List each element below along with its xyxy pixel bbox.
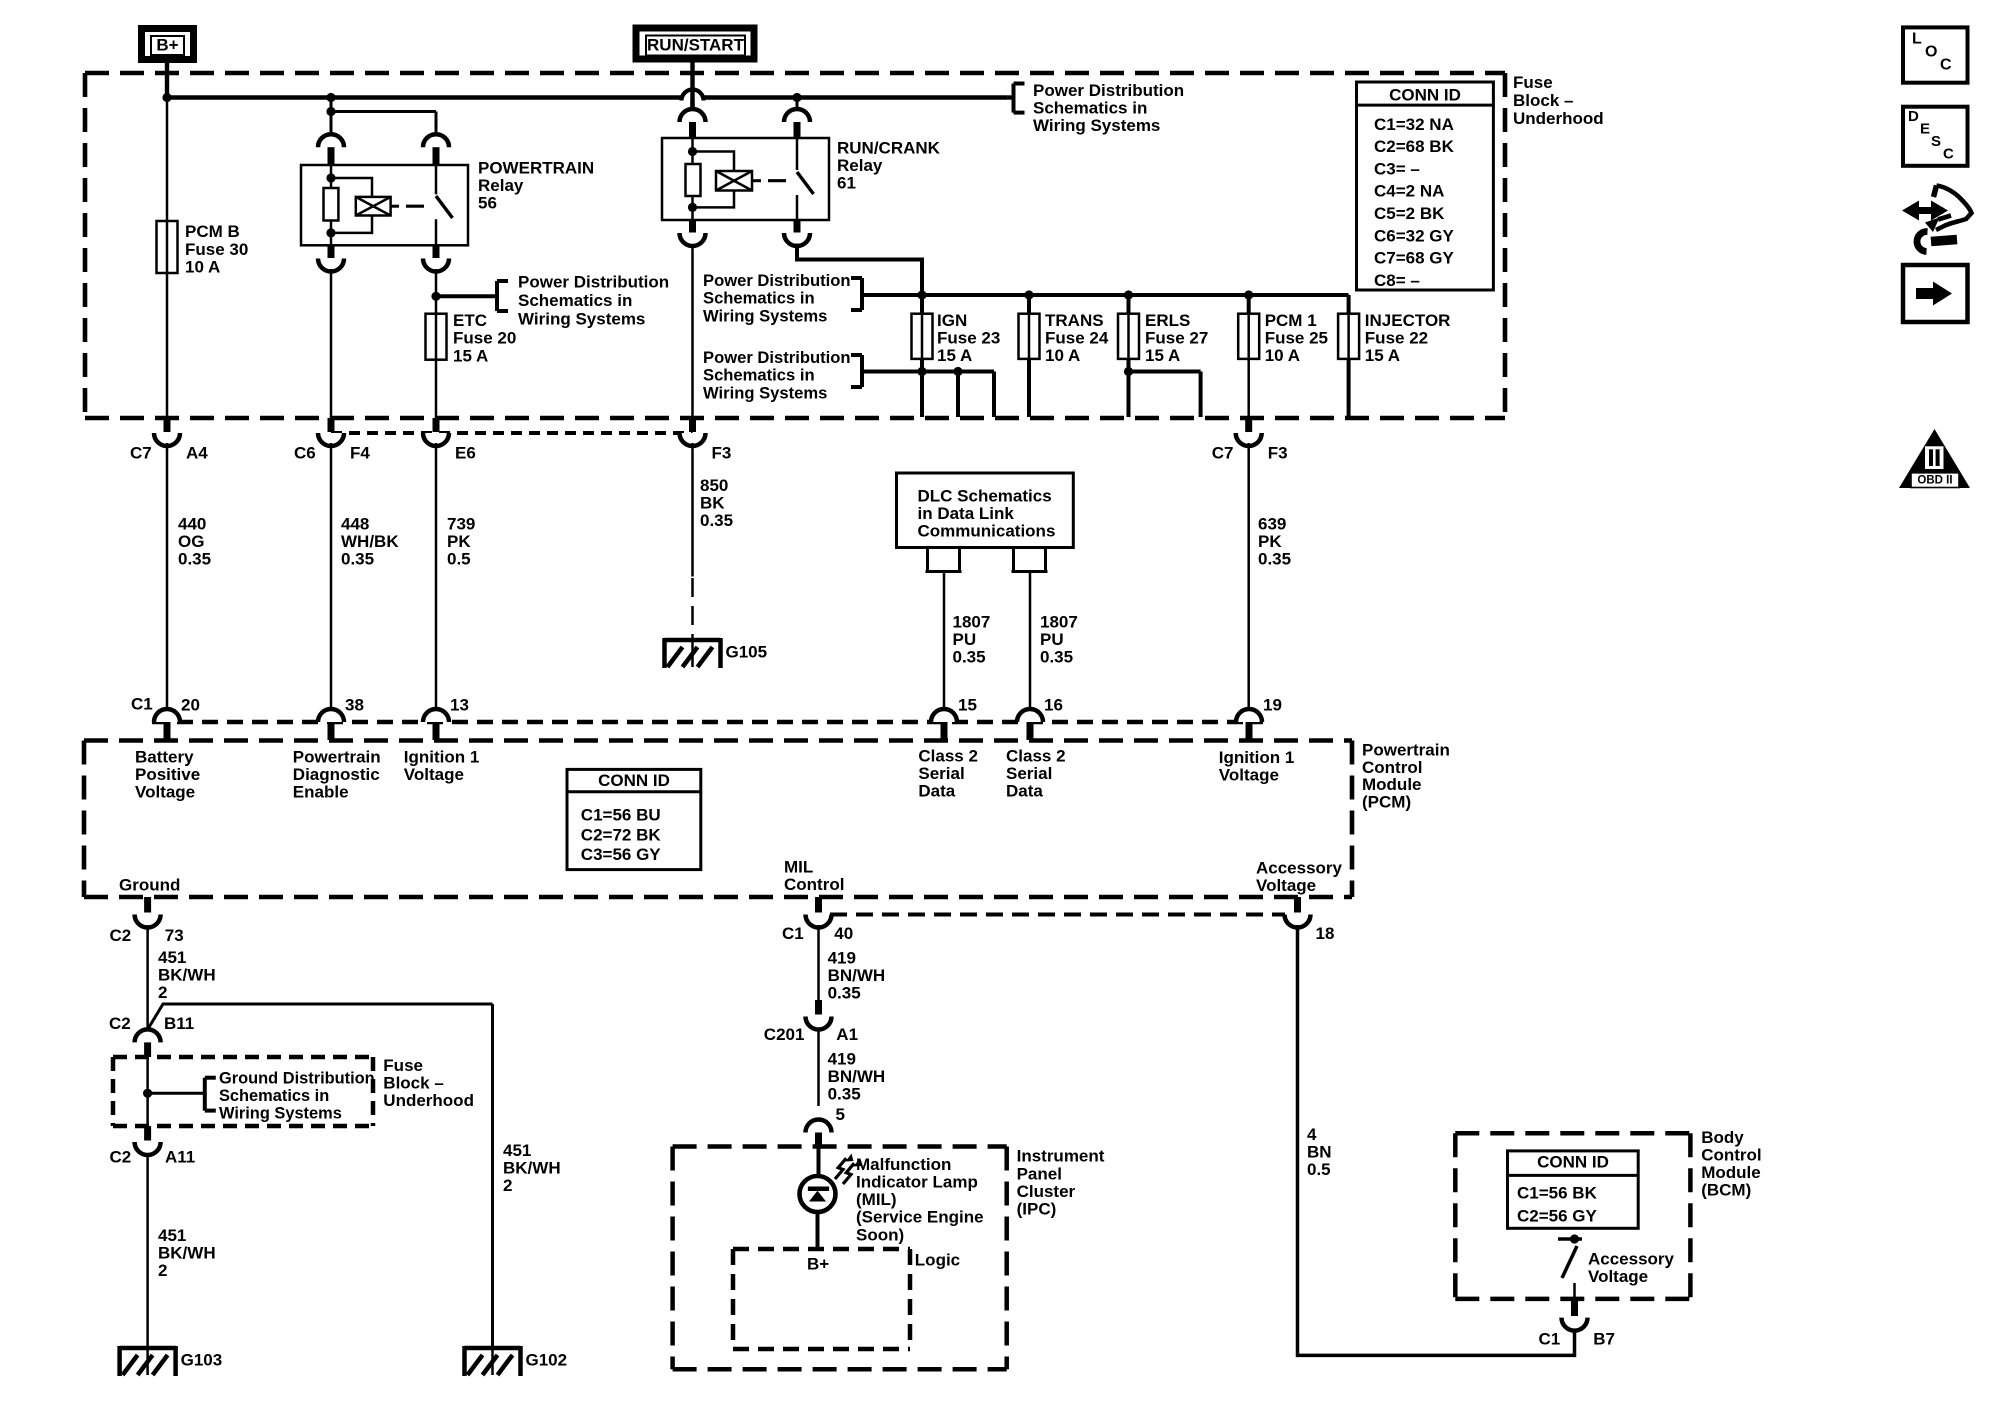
svg-text:Soon): Soon) [856,1225,904,1244]
svg-text:10 A: 10 A [185,257,220,276]
svg-text:Power Distribution: Power Distribution [703,348,851,367]
svg-text:C7: C7 [1212,443,1234,462]
svg-text:Control: Control [1362,758,1422,777]
fuse F30 PCM B [157,221,178,273]
svg-text:Schematics in: Schematics in [518,291,632,310]
svg-text:10 A: 10 A [1265,346,1300,365]
conn id table fuse block [1357,82,1494,290]
svg-text:Wiring Systems: Wiring Systems [518,310,645,329]
svg-text:C7: C7 [130,443,152,462]
connector C1/B7 [1571,1300,1578,1316]
svg-text:13: 13 [450,695,469,714]
svg-text:C7=68 GY: C7=68 GY [1374,249,1455,268]
svg-text:(BCM): (BCM) [1701,1181,1751,1200]
svg-text:ETC: ETC [453,311,487,330]
svg-text:C3=56 GY: C3=56 GY [581,845,662,864]
svg-text:D: D [1908,108,1919,125]
svg-text:15 A: 15 A [1365,346,1400,365]
svg-text:Fuse 30: Fuse 30 [185,240,248,259]
svg-text:CONN ID: CONN ID [1537,1152,1609,1171]
svg-text:Cluster: Cluster [1017,1182,1076,1201]
svg-text:Voltage: Voltage [135,783,195,802]
node junction IGN [917,290,926,299]
svg-text:C2=68 BK: C2=68 BK [1374,137,1455,156]
crossover hop on bus [682,90,704,101]
wire ERLS fuse outputs [1127,359,1131,417]
svg-text:TRANS: TRANS [1045,311,1104,330]
svg-text:INJECTOR: INJECTOR [1365,311,1451,330]
svg-text:40: 40 [834,924,853,943]
svg-text:Communications: Communications [918,522,1056,541]
svg-text:PU: PU [1040,630,1064,649]
svg-text:C6: C6 [294,443,316,462]
icon diagnostic arrows [1915,207,1943,214]
svg-text:Control: Control [784,875,844,894]
svg-text:Battery: Battery [135,747,194,766]
svg-text:2: 2 [158,1261,167,1280]
connector terminal run/crank out 1 [689,220,696,233]
svg-text:56: 56 [478,194,497,213]
svg-text:Data: Data [918,782,955,801]
conn id table bcm [1508,1151,1639,1228]
icon OBD II triangle [1899,429,1970,488]
fuse F23 IGN [920,295,924,314]
lamp MIL indicator [800,1176,836,1212]
svg-text:0.35: 0.35 [1040,648,1073,667]
svg-text:C: C [1940,57,1952,74]
svg-text:C4=2 NA: C4=2 NA [1374,182,1444,201]
connector pcm MIL pin 40 [815,897,822,913]
switch accessory voltage [1558,1237,1582,1241]
fuse F20 ETC [426,314,447,360]
wire 4 BN to BCM [1298,925,1575,1355]
svg-text:0.5: 0.5 [447,550,471,569]
svg-text:Accessory: Accessory [1256,858,1343,877]
svg-text:S: S [1931,133,1941,150]
svg-text:C5=2 BK: C5=2 BK [1374,204,1445,223]
svg-text:C1: C1 [782,924,804,943]
ground G103 [120,1346,176,1351]
wire bus to run/crank switch [796,98,799,111]
svg-text:15 A: 15 A [453,346,488,365]
svg-text:Fuse 20: Fuse 20 [453,329,516,348]
svg-text:F3: F3 [712,443,732,462]
wire 850 BK to ground [691,443,694,577]
wire fuse 30 to connector A4 [166,273,169,419]
relay K56 POWERTRAIN box [301,165,468,245]
svg-text:419: 419 [828,1050,856,1069]
connector F3 [689,418,696,432]
svg-text:Fuse 27: Fuse 27 [1145,328,1208,347]
wire PCM1 fuse output [1247,359,1250,419]
svg-text:A4: A4 [186,443,208,462]
svg-text:PU: PU [953,630,977,649]
bus wire from B+ [167,95,1007,99]
fuse F27 ERLS [1127,295,1131,314]
wire B+ feed [165,60,169,98]
relay K61 coil winding [693,152,735,172]
connector C7/A4 [164,418,171,432]
svg-text:Underhood: Underhood [383,1091,474,1110]
wire 451 BK/WH from pcm [146,925,149,1030]
wire 440 OG [166,443,169,709]
svg-text:BN/WH: BN/WH [828,966,886,985]
svg-text:DLC Schematics: DLC Schematics [918,486,1052,505]
svg-text:2: 2 [158,983,167,1002]
svg-text:PK: PK [1258,532,1282,551]
svg-text:MIL: MIL [784,857,813,876]
connector pcm ground pin 73 [144,897,151,913]
svg-text:Logic: Logic [915,1250,960,1269]
wire run/crank out to connector F3 [691,244,694,419]
svg-text:C1=56 BU: C1=56 BU [581,806,661,825]
svg-text:0.35: 0.35 [700,511,733,530]
relay K56 coil winding [331,178,372,197]
note DLC schematics box [897,473,1074,548]
svg-text:G105: G105 [726,642,768,661]
svg-text:C2=72 BK: C2=72 BK [581,825,662,844]
node junction run/crank switch feed [792,93,801,102]
svg-text:Instrument: Instrument [1017,1147,1105,1166]
svg-text:20: 20 [181,695,200,714]
node junction ETC [431,292,440,301]
svg-text:BN/WH: BN/WH [828,1067,886,1086]
svg-text:Schematics in: Schematics in [703,366,815,385]
svg-text:Power Distribution: Power Distribution [518,272,669,291]
connector pcm pin 15 [931,709,957,722]
connector pcm pin 38 [318,709,344,722]
svg-text:Fuse 23: Fuse 23 [937,328,1000,347]
svg-text:O: O [1925,44,1937,61]
icon wrench [1931,240,1957,242]
svg-text:C201: C201 [764,1025,805,1044]
wire 739 PK [435,443,438,709]
svg-text:448: 448 [341,514,369,533]
dotted connector line MIL-accessory [830,913,1285,917]
dotted connector line C6-F3 [331,431,693,435]
svg-text:Fuse 24: Fuse 24 [1045,328,1109,347]
bracket to ground distribution note [203,1078,207,1111]
svg-text:Schematics in: Schematics in [219,1087,329,1105]
svg-text:Accessory: Accessory [1588,1249,1675,1268]
svg-text:15 A: 15 A [937,346,972,365]
svg-text:Underhood: Underhood [1513,109,1604,128]
svg-text:Data: Data [1006,782,1043,801]
relay K61 switch [796,138,799,170]
svg-text:Power Distribution: Power Distribution [1033,81,1184,100]
svg-text:73: 73 [165,926,184,945]
relay K56 switch [435,165,438,194]
wire 419 BN/WH lower [817,1029,820,1106]
svg-text:C1: C1 [131,694,153,713]
svg-text:C: C [1943,145,1954,162]
wire to MIL lamp [817,1148,821,1176]
power feed box RUN/START [636,28,754,59]
svg-text:639: 639 [1258,514,1286,533]
svg-text:Positive: Positive [135,765,200,784]
svg-text:440: 440 [178,514,206,533]
svg-text:B+: B+ [807,1254,829,1273]
wire inside ground fuse block [146,1057,149,1126]
svg-text:Wiring Systems: Wiring Systems [703,383,827,402]
svg-text:A1: A1 [836,1025,858,1044]
svg-text:A11: A11 [165,1147,195,1166]
svg-text:F3: F3 [1268,443,1288,462]
connector terminal run/crank switch pin [784,109,810,122]
wire IGN fuse outputs [920,359,924,417]
svg-text:Block –: Block – [1513,91,1573,110]
fuse block - underhood dashed border [85,71,1505,76]
svg-text:Relay: Relay [837,156,883,175]
svg-text:18: 18 [1316,924,1335,943]
svg-text:B7: B7 [1593,1329,1615,1348]
wire run/crank out to fuse feed [797,244,922,296]
svg-text:15: 15 [958,695,977,714]
svg-text:451: 451 [158,1226,186,1245]
svg-text:(Service Engine: (Service Engine [856,1208,984,1227]
svg-text:Voltage: Voltage [1256,876,1316,895]
wire 448 WH/BK [330,443,333,709]
wire class2 serial data 2 [1012,548,1015,572]
svg-text:E: E [1920,120,1930,137]
svg-text:15 A: 15 A [1145,346,1180,365]
relay K56 coil resistor [330,165,333,188]
svg-text:ERLS: ERLS [1145,311,1190,330]
svg-text:OG: OG [178,532,204,551]
svg-text:OBD II: OBD II [1917,475,1952,487]
node junction TRANS [1024,290,1033,299]
connector C7/F3 [1245,418,1252,432]
node junction B+ bus [162,93,171,102]
svg-text:C1: C1 [1539,1329,1561,1348]
svg-text:Voltage: Voltage [1219,766,1279,785]
svg-text:(MIL): (MIL) [856,1190,897,1209]
svg-text:Ignition 1: Ignition 1 [404,747,480,766]
svg-text:PCM B: PCM B [185,222,240,241]
svg-text:C1=56 BK: C1=56 BK [1517,1184,1598,1203]
svg-text:Diagnostic: Diagnostic [293,765,380,784]
svg-text:2: 2 [503,1176,512,1195]
connector C2/A11 [144,1126,151,1141]
connector pcm accessory pin 18 [1294,897,1301,913]
svg-text:Ground Distribution: Ground Distribution [219,1070,375,1088]
svg-text:19: 19 [1263,695,1282,714]
svg-text:Class 2: Class 2 [1006,746,1066,765]
svg-text:F4: F4 [350,443,370,462]
svg-text:BK/WH: BK/WH [503,1159,561,1178]
svg-text:Block –: Block – [383,1074,443,1093]
connector pcm pin 16 [1017,709,1043,722]
svg-text:C2=56 GY: C2=56 GY [1517,1206,1598,1225]
icon forward arrow box [1903,265,1968,322]
svg-text:Wiring Systems: Wiring Systems [1033,116,1160,135]
fuse F25 PCM 1 [1247,295,1251,314]
svg-text:0.35: 0.35 [178,550,211,569]
svg-text:16: 16 [1044,695,1063,714]
svg-text:0.35: 0.35 [953,648,986,667]
wire ETC fuse to connector E6 [435,360,438,419]
svg-text:BK/WH: BK/WH [158,966,216,985]
logic dashed box [733,1247,910,1252]
svg-text:Indicator Lamp: Indicator Lamp [856,1173,978,1192]
wire 451 BK/WH to G103 [146,1153,149,1348]
bracket to power distribution note (feed) [860,278,864,310]
svg-text:E6: E6 [455,443,476,462]
pcm pin connector line dotted [152,720,1263,725]
wire 639 PK [1247,443,1250,709]
wire TRANS fuse output [1027,359,1031,417]
connector terminal powertrain out 1 [328,245,335,258]
svg-text:5: 5 [836,1105,845,1124]
svg-text:Fuse: Fuse [383,1056,423,1075]
connector C6/F4 [328,418,335,432]
connector C2/B11 [135,1029,161,1042]
svg-text:RUN/START: RUN/START [647,35,745,54]
svg-text:G103: G103 [181,1350,223,1369]
wire powertrain out to ETC fuse [435,269,438,314]
bcm dashed box [1455,1131,1690,1136]
svg-text:61: 61 [837,174,856,193]
node junction ERLS [1124,290,1133,299]
svg-text:CONN ID: CONN ID [1389,86,1461,105]
svg-text:C8= –: C8= – [1374,271,1420,290]
svg-text:10 A: 10 A [1045,346,1080,365]
connector pcm pin 19 [1236,709,1262,722]
svg-text:Schematics in: Schematics in [1033,99,1147,118]
svg-text:Voltage: Voltage [404,765,464,784]
svg-text:B+: B+ [156,35,178,54]
svg-text:C2: C2 [109,1014,131,1033]
svg-text:419: 419 [828,948,856,967]
svg-text:L: L [1912,31,1922,48]
connector terminal run/crank coil pin [680,109,706,122]
connector terminal powertrain coil pin 1 [318,134,344,147]
svg-text:Relay: Relay [478,176,524,195]
svg-text:Ignition 1: Ignition 1 [1219,748,1295,767]
ground G105 [665,638,721,643]
svg-text:CONN ID: CONN ID [598,771,670,790]
connector terminal powertrain out 2 [433,245,440,258]
wire 419 BN/WH upper [817,925,820,1000]
svg-text:Powertrain: Powertrain [1362,741,1450,760]
svg-text:451: 451 [503,1141,531,1160]
svg-text:451: 451 [158,948,186,967]
node junction PCM1 [1244,290,1253,299]
pcm dashed border [84,738,1352,743]
svg-text:0.35: 0.35 [1258,550,1291,569]
fuse block underhood dashed box (ground) [113,1055,373,1060]
relay K56 actuation dashes [391,205,399,208]
svg-text:Panel: Panel [1017,1164,1062,1183]
svg-text:(PCM): (PCM) [1362,792,1411,811]
svg-text:Control: Control [1701,1145,1761,1164]
svg-text:(IPC): (IPC) [1017,1200,1057,1219]
wire bus to powertrain relay [330,98,333,112]
relay K61 actuation dashes [752,179,761,182]
connector pcm pin 20 [154,709,180,722]
svg-text:Body: Body [1701,1128,1744,1147]
svg-text:C2: C2 [110,926,132,945]
icon LOC box [1903,27,1968,82]
svg-text:Enable: Enable [293,783,349,802]
fuse F24 TRANS [1027,295,1031,314]
fuse feed wire [862,293,1349,297]
wire branch to G102 [148,1004,493,1030]
conn id table pcm [567,769,701,869]
svg-text:Powertrain: Powertrain [293,747,381,766]
svg-text:Fuse 25: Fuse 25 [1265,328,1328,347]
svg-text:Fuse 22: Fuse 22 [1365,328,1428,347]
connector E6 [433,418,440,432]
connector terminal powertrain switch pin [423,134,449,147]
node junction powertrain feed [326,93,335,102]
svg-text:1807: 1807 [953,612,991,631]
svg-text:BK/WH: BK/WH [158,1244,216,1263]
svg-text:POWERTRAIN: POWERTRAIN [478,158,594,177]
icon DESC box [1903,107,1968,166]
relay K61 RUN/CRANK box [662,138,829,220]
svg-text:Module: Module [1362,775,1422,794]
svg-text:G102: G102 [526,1350,568,1369]
svg-text:C2: C2 [110,1147,132,1166]
svg-text:0.35: 0.35 [341,550,374,569]
svg-text:850: 850 [700,476,728,495]
wire powertrain out to connector F4 [330,269,333,419]
bracket to power distribution note (bus) [1012,84,1016,113]
wire INJECTOR fuse output [1347,359,1351,417]
svg-text:C3= –: C3= – [1374,159,1420,178]
svg-text:739: 739 [447,514,475,533]
connector pcm pin 13 [423,709,449,722]
power feed box B+ [142,29,194,60]
svg-text:38: 38 [345,695,364,714]
svg-text:Power Distribution: Power Distribution [703,271,851,290]
svg-text:BK: BK [700,494,725,513]
svg-text:Malfunction: Malfunction [856,1155,951,1174]
svg-text:BN: BN [1307,1143,1332,1162]
ground G102 [465,1346,521,1351]
svg-text:Fuse: Fuse [1513,73,1553,92]
bracket to power distribution note (lower) [860,355,864,387]
svg-text:Wiring Systems: Wiring Systems [703,306,827,325]
relay K61 coil resistor [691,138,694,164]
svg-text:Serial: Serial [1006,764,1052,783]
svg-text:RUN/CRANK: RUN/CRANK [837,138,941,157]
svg-text:B11: B11 [164,1014,194,1033]
bracket to power distribution note (ETC) [495,281,499,311]
svg-text:IGN: IGN [937,311,967,330]
wire B+ down to fuse 30 [166,98,169,222]
svg-text:Module: Module [1701,1163,1761,1182]
svg-text:0.5: 0.5 [1307,1160,1331,1179]
fuse F22 INJECTOR [1347,295,1351,314]
svg-text:in Data Link: in Data Link [918,504,1015,523]
lamp rays [835,1158,846,1179]
svg-text:1807: 1807 [1040,612,1078,631]
svg-text:Schematics in: Schematics in [703,289,815,308]
instrument panel cluster dashed box [673,1144,1007,1149]
svg-text:Class 2: Class 2 [918,746,978,765]
svg-text:Wiring Systems: Wiring Systems [219,1105,342,1123]
connector C201/A1 [815,1000,822,1015]
svg-text:0.35: 0.35 [828,1085,861,1104]
svg-text:C6=32 GY: C6=32 GY [1374,226,1455,245]
svg-text:C1=32 NA: C1=32 NA [1374,115,1454,134]
svg-text:PK: PK [447,532,471,551]
connector terminal run/crank out 2 [794,220,801,233]
svg-text:Ground: Ground [119,876,180,895]
wire lamp to logic [816,1212,820,1250]
